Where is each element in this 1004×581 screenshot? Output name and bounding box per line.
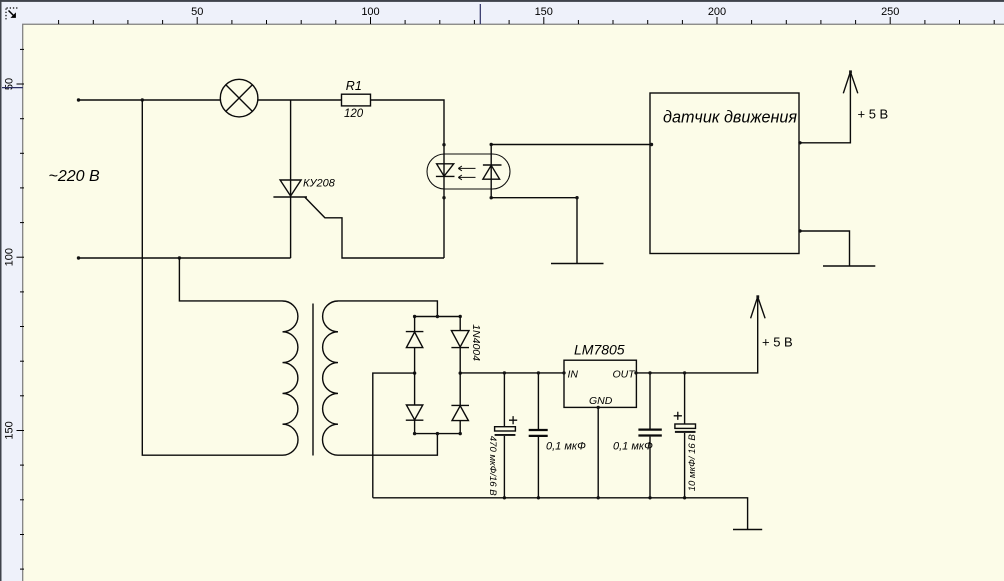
wire bottom rail — [79, 257, 291, 259]
svg-text:IN: IN — [568, 369, 579, 381]
ground GND3 — [733, 529, 762, 531]
svg-text:датчик движения: датчик движения — [663, 109, 797, 127]
node bottom-left terminal — [77, 256, 80, 259]
optocoupler output vertical wire — [490, 145, 492, 198]
node GND rail junction — [597, 496, 600, 499]
node junction bottom rail to primary — [178, 256, 181, 259]
capacitor C1 top plate — [495, 427, 516, 431]
svg-text:LM7805: LM7805 — [574, 342, 625, 358]
svg-text:470 мкФ/16 В: 470 мкФ/16 В — [487, 436, 498, 496]
wire bridge minus to bottom rail — [373, 373, 415, 498]
capacitor C1 bottom plate — [495, 434, 516, 436]
svg-text:150: 150 — [4, 421, 16, 439]
bottom rail wire — [373, 498, 748, 530]
diode D4 (bottom-right, pointing up) — [451, 373, 469, 434]
svg-text:50: 50 — [4, 78, 16, 90]
capacitor C4 top plate — [675, 424, 696, 428]
node C1 top — [503, 371, 506, 374]
C1 plus sign — [509, 416, 517, 424]
wire lamp to R1 — [258, 99, 342, 101]
regulator GND pin dot — [597, 406, 600, 409]
wire bridge plus to regulator input rail — [460, 372, 564, 374]
power arrow +5V lower — [751, 297, 766, 319]
capacitor C3 0.1uF — [638, 373, 661, 498]
svg-text:120: 120 — [344, 108, 364, 120]
diode D2 (top-right, pointing down) — [451, 317, 469, 374]
optocoupler output top pin dot — [490, 143, 493, 146]
bridge bottom nodes — [413, 432, 416, 435]
C4 plus sign — [674, 412, 682, 420]
svg-text:OUT: OUT — [613, 369, 637, 381]
sensor ground pin dot — [798, 229, 801, 232]
power arrow +5V upper — [843, 72, 858, 94]
optocoupler LED cathode bar — [436, 175, 455, 177]
svg-text:+ 5 В: + 5 В — [858, 107, 889, 122]
wire regulator out rail to +5V — [636, 297, 757, 373]
motion sensor box — [650, 93, 799, 254]
capacitor C4 bottom plate — [675, 431, 696, 433]
resistor R1 — [342, 94, 371, 106]
wire opto output to ground — [491, 198, 577, 264]
transformer T1 primary winding — [283, 301, 299, 455]
diode D1 (top-left, pointing up) — [406, 317, 424, 374]
wire sensor to +5V arrow — [799, 72, 850, 143]
wire opto output to sensor — [491, 144, 650, 146]
optocoupler LED cathode pin dot — [442, 196, 445, 199]
node C2 top — [537, 371, 540, 374]
wire sensor to ground — [799, 231, 850, 266]
node C3 top — [648, 371, 651, 374]
svg-text:0,1 мкФ: 0,1 мкФ — [546, 441, 586, 453]
svg-text:GND: GND — [589, 395, 613, 407]
svg-text:1N4004: 1N4004 — [470, 324, 482, 361]
regulator IN pin dot — [562, 371, 565, 374]
wire top rail left — [79, 99, 221, 101]
capacitor C4 10uF top lead — [684, 373, 686, 424]
svg-text:150: 150 — [535, 6, 553, 18]
capacitor C1 bottom lead — [503, 436, 505, 498]
thyristor gate wire — [305, 197, 444, 258]
optocoupler phototriac triangle — [483, 165, 500, 179]
node L terminal top-left — [77, 98, 80, 101]
thyristor VS1 KU208 vertical wire — [290, 100, 292, 258]
wire junction down to primary top — [179, 258, 282, 301]
svg-text:200: 200 — [708, 6, 726, 18]
svg-text:+ 5 В: + 5 В — [762, 335, 793, 350]
svg-text:100: 100 — [4, 248, 16, 266]
ground GND2 — [823, 265, 875, 267]
node C4 top — [683, 371, 686, 374]
optocoupler LED triangle — [437, 164, 454, 176]
sensor +5V pin dot — [798, 141, 801, 144]
node C2 bottom — [537, 496, 540, 499]
bridge top bar — [415, 316, 461, 318]
wire R1 to optocoupler LED anode — [371, 100, 445, 145]
svg-text:0,1 мкФ: 0,1 мкФ — [613, 441, 653, 453]
svg-text:R1: R1 — [346, 79, 362, 93]
lamp HL1 — [220, 79, 258, 117]
svg-text:10 мкФ/ 16 В: 10 мкФ/ 16 В — [687, 434, 698, 492]
optocoupler output bottom pin dot — [490, 196, 493, 199]
optocoupler LED anode pin dot — [442, 143, 445, 146]
thyristor VS1 cathode bar — [273, 196, 307, 198]
node C4 bottom — [683, 496, 686, 499]
ground GND1 — [551, 263, 604, 265]
svg-text:250: 250 — [881, 6, 899, 18]
bridge mid-left node — [413, 371, 416, 374]
bridge mid-right node — [459, 371, 462, 374]
regulator U2 LM7805 box — [564, 360, 636, 407]
transformer T1 core — [312, 304, 314, 456]
diode D3 (bottom-left, pointing down) — [406, 373, 424, 434]
wire secondary bottom to bridge — [338, 434, 437, 456]
optocoupler coupling arrow upper — [458, 166, 475, 171]
capacitor C4 bottom lead — [684, 433, 686, 498]
svg-text:~220 В: ~220 В — [49, 168, 100, 185]
regulator GND pin wire — [597, 407, 599, 497]
bridge bottom bar — [415, 433, 461, 435]
optocoupler phototriac bar — [483, 164, 502, 166]
node C1 bottom — [503, 496, 506, 499]
node corner dot — [575, 196, 578, 199]
optocoupler U1 body — [427, 154, 510, 189]
bridge top nodes — [413, 315, 416, 318]
transformer T1 secondary winding — [323, 301, 338, 455]
capacitor C2 0.1uF — [529, 373, 548, 498]
svg-text:100: 100 — [361, 6, 379, 18]
capacitor C1 470uF top lead — [503, 373, 505, 427]
sensor input pin dot — [650, 143, 653, 146]
node C3 bottom — [648, 496, 651, 499]
regulator OUT pin dot — [634, 371, 637, 374]
svg-text:50: 50 — [191, 6, 203, 18]
optocoupler coupling arrow lower — [458, 175, 475, 180]
cursor icon in ruler corner — [6, 8, 18, 20]
wire secondary top to bridge — [338, 301, 437, 317]
wire junction down to primary bottom — [142, 100, 282, 455]
thyristor VS1 triangle — [280, 180, 301, 196]
node junction to transformer primary top feed — [141, 98, 144, 101]
svg-text:КУ208: КУ208 — [303, 178, 336, 190]
optocoupler LED vertical wire — [443, 145, 445, 258]
